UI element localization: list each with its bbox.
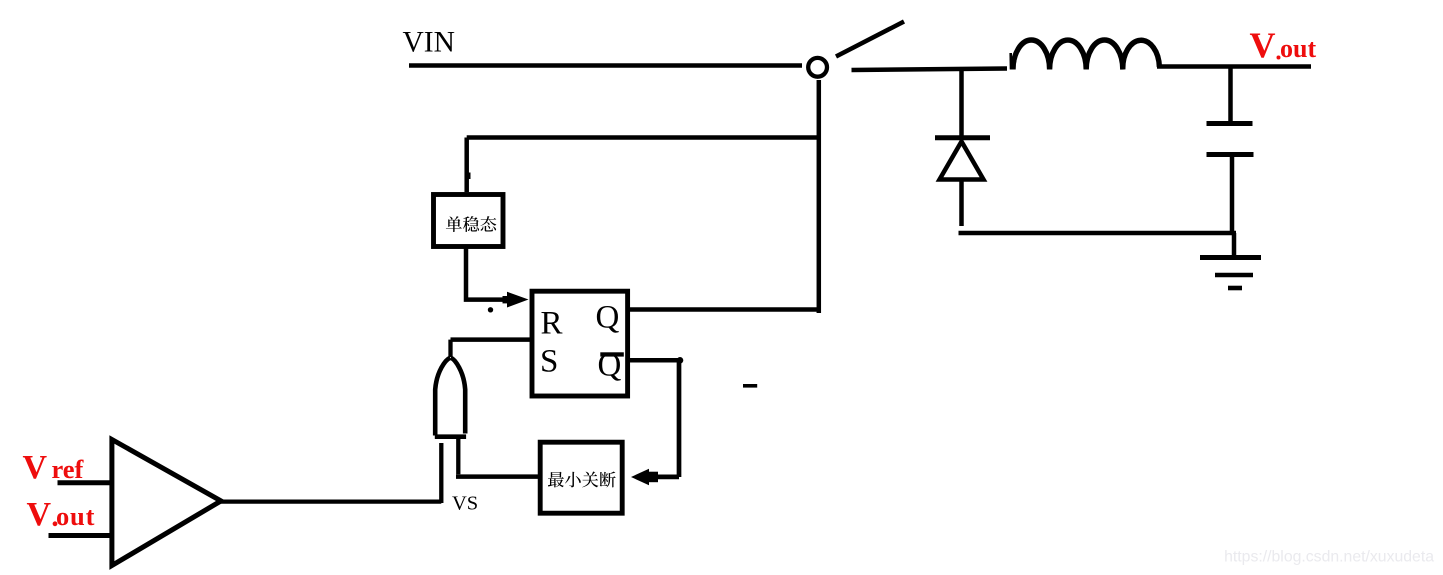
svg-text:out: out xyxy=(1280,34,1316,63)
wire monostable to R input xyxy=(466,249,509,300)
svg-text:https://blog.csdn.net/xuxudeta: https://blog.csdn.net/xuxudeta xyxy=(1224,549,1434,566)
wire comparator output xyxy=(218,499,441,503)
svg-text:V: V xyxy=(27,496,52,533)
pin label R xyxy=(541,306,563,342)
svg-text:out: out xyxy=(56,501,95,531)
switch SW1 pivot xyxy=(808,58,827,77)
wire into min-off arrow xyxy=(653,475,679,480)
AND gate dome xyxy=(435,358,466,437)
label 最小关断 xyxy=(548,472,616,488)
wire switch node down to Q xyxy=(817,80,822,313)
flip-flop U1 box xyxy=(532,291,628,396)
pin label S xyxy=(540,344,558,380)
svg-text:VIN: VIN xyxy=(403,27,455,59)
wire AND input from min-off block xyxy=(456,437,538,477)
wire Qbar down xyxy=(677,360,682,477)
wire switch to inductor xyxy=(852,69,1008,71)
svg-text:V: V xyxy=(23,449,48,486)
svg-text:VS: VS xyxy=(452,493,478,515)
ground symbol xyxy=(1200,233,1261,288)
wire capacitor C1 to ground rail xyxy=(1230,155,1235,234)
net label VIN xyxy=(403,27,455,59)
arrowhead into R xyxy=(503,292,529,308)
comparator U2 xyxy=(112,440,221,566)
minimum-off-time block xyxy=(540,442,622,513)
inductor L1 xyxy=(1013,40,1159,70)
svg-text:Q: Q xyxy=(596,300,620,336)
wire comparator output up into AND xyxy=(439,443,443,503)
wire diode D1 to ground rail xyxy=(959,180,964,227)
wire S input xyxy=(451,337,533,342)
ground rail wire xyxy=(959,231,1237,236)
wire down to monostable xyxy=(467,138,471,193)
svg-text:ref: ref xyxy=(52,454,85,484)
stray dash xyxy=(743,384,757,388)
watermark xyxy=(1224,549,1434,566)
diode D1 cathode bar xyxy=(935,135,990,140)
wire Vout node to capacitor C1 xyxy=(1228,67,1233,124)
wire Vout input xyxy=(49,533,113,538)
arrowhead into min-off xyxy=(631,469,658,486)
net label Vref xyxy=(23,449,85,486)
wire Q output xyxy=(630,307,819,312)
svg-text:S: S xyxy=(540,344,558,380)
wire inductor to Vout node xyxy=(1157,64,1311,69)
wire S input down xyxy=(448,340,452,357)
pin label Q xyxy=(596,300,620,336)
monostable block xyxy=(434,195,504,247)
wire VIN to switch xyxy=(409,63,802,68)
pin label Qbar xyxy=(598,348,624,384)
label 单稳态 xyxy=(446,216,496,232)
capacitor C1 top plate xyxy=(1207,121,1253,126)
inductor L1 start tick xyxy=(1009,53,1012,70)
svg-text:V: V xyxy=(1250,25,1276,65)
wire Vref input xyxy=(58,480,113,485)
stray dot xyxy=(488,307,493,312)
wire Qbar output xyxy=(628,358,679,363)
stray red dot 2 xyxy=(53,521,58,526)
net label Vout (input) xyxy=(27,496,96,533)
diode D1 triangle xyxy=(940,142,984,180)
net label VS xyxy=(452,493,478,515)
net label Vout (output) xyxy=(1250,25,1317,65)
wire switch node to diode D1 xyxy=(959,69,964,136)
stray red dot xyxy=(1277,56,1281,60)
capacitor C1 bottom plate xyxy=(1207,152,1254,157)
svg-text:R: R xyxy=(541,306,563,342)
switch SW1 arm xyxy=(836,22,904,57)
junction dot xyxy=(677,357,684,364)
wire feedback top horizontal xyxy=(467,135,819,140)
